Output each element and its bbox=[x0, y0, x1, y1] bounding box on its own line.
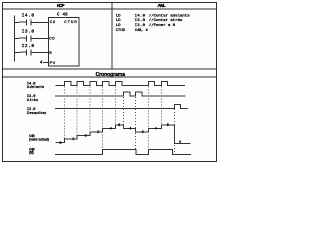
svg-text:CTUD: CTUD bbox=[116, 29, 126, 33]
svg-text:I2.0: I2.0 bbox=[22, 44, 35, 49]
svg-text:KOP: KOP bbox=[57, 3, 65, 8]
svg-text:2: 2 bbox=[85, 133, 87, 137]
svg-text:4: 4 bbox=[40, 60, 43, 65]
counter box U1 CTUD bbox=[49, 17, 79, 66]
svg-text:C 48: C 48 bbox=[57, 13, 68, 17]
svg-text:CTUD: CTUD bbox=[64, 21, 77, 25]
cronograma band bottom line bbox=[2, 76, 217, 78]
svg-text://Contar atrás: //Contar atrás bbox=[149, 18, 183, 23]
svg-text:LD: LD bbox=[116, 19, 121, 23]
svg-text:4: 4 bbox=[129, 126, 131, 130]
svg-text:3: 3 bbox=[142, 130, 144, 134]
svg-text:PV: PV bbox=[50, 62, 56, 66]
guide at CU pulse 3 bbox=[89, 87, 91, 133]
waveform C48 current value staircase bbox=[56, 125, 191, 143]
cronograma band top line bbox=[2, 68, 217, 70]
svg-text:I3.0: I3.0 bbox=[135, 19, 146, 23]
svg-text:1: 1 bbox=[72, 137, 74, 141]
contact I3.0 bbox=[15, 36, 48, 42]
waveform I3.0 count-down pulses bbox=[55, 92, 186, 96]
guide at CD pulse 2 bbox=[135, 97, 137, 149]
svg-text:0: 0 bbox=[179, 140, 181, 144]
KOP/AWL divider bbox=[111, 2, 113, 69]
header underline bbox=[2, 8, 217, 10]
svg-text:Adelante: Adelante bbox=[27, 85, 44, 89]
guide at CU pulse 5 bbox=[114, 87, 116, 126]
svg-text:(valor actual): (valor actual) bbox=[29, 137, 49, 141]
svg-text:LD: LD bbox=[116, 14, 121, 18]
guide at CU pulse 2 bbox=[76, 87, 78, 136]
guide at CU pulse 1 bbox=[63, 87, 65, 140]
svg-text:I4.0: I4.0 bbox=[22, 13, 35, 18]
contact I4.0 bbox=[15, 20, 48, 26]
outer border frame bbox=[3, 3, 217, 162]
svg-text:0: 0 bbox=[60, 141, 62, 145]
svg-text:C48, 4: C48, 4 bbox=[135, 29, 149, 33]
svg-text:(bit): (bit) bbox=[29, 151, 34, 155]
guide at reset pulse bbox=[174, 109, 176, 152]
ladder left power rail bbox=[14, 16, 16, 62]
svg-text://Poner a 0: //Poner a 0 bbox=[149, 23, 176, 28]
svg-text:Cronograma: Cronograma bbox=[96, 72, 126, 78]
waveform I4.0 count-up pulses bbox=[56, 82, 186, 86]
svg-text:I4.0: I4.0 bbox=[135, 14, 146, 18]
svg-text:3: 3 bbox=[97, 130, 99, 134]
svg-text:Atrás: Atrás bbox=[27, 98, 38, 102]
svg-text:5: 5 bbox=[118, 123, 120, 127]
svg-text:Desactivar: Desactivar bbox=[27, 111, 47, 115]
svg-text:I2.0: I2.0 bbox=[135, 24, 146, 28]
waveform C48 output bit bbox=[55, 150, 191, 155]
svg-text:I3.0: I3.0 bbox=[22, 29, 35, 34]
svg-text:AWL: AWL bbox=[158, 3, 166, 8]
svg-text://Contar adelante: //Contar adelante bbox=[149, 13, 190, 18]
wire to PV bbox=[43, 62, 48, 64]
svg-text:LD: LD bbox=[116, 24, 121, 28]
svg-text:CD: CD bbox=[49, 37, 55, 41]
svg-text:CU: CU bbox=[50, 21, 56, 25]
contact I2.0 bbox=[15, 50, 48, 56]
svg-text:4: 4 bbox=[110, 126, 112, 130]
guide at CU pulse 7 bbox=[160, 87, 162, 125]
guide at CU pulse 4 bbox=[102, 87, 104, 150]
guide at CD pulse 1 bbox=[123, 97, 125, 129]
waveform I2.0 reset pulse bbox=[55, 104, 188, 108]
svg-text:5: 5 bbox=[167, 123, 169, 127]
guide at CU pulse 6 bbox=[148, 87, 150, 150]
svg-text:4: 4 bbox=[155, 126, 157, 130]
